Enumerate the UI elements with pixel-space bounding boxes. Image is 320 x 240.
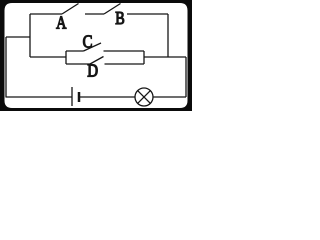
switch C lever <box>84 43 102 51</box>
node ladder right bar <box>143 51 145 64</box>
svg-text:D: D <box>87 60 98 80</box>
lamp L1 circle <box>135 88 153 106</box>
wire D left <box>66 63 90 65</box>
wire feed right <box>144 56 186 58</box>
wire feed left <box>30 56 66 58</box>
svg-text:A: A <box>56 12 67 32</box>
node ladder left bar <box>65 51 67 64</box>
wire left branch <box>6 36 30 38</box>
wire C right <box>104 50 145 52</box>
wire top left <box>30 13 62 15</box>
switch D lever <box>90 57 104 65</box>
switch A lever <box>62 4 79 15</box>
wire right rail upper <box>167 14 169 57</box>
wire top middle <box>85 13 104 15</box>
border frame <box>0 0 192 111</box>
wire bottom middle <box>80 96 135 98</box>
svg-text:C: C <box>83 32 93 52</box>
wire right rail lower <box>185 57 187 97</box>
wire bottom left <box>6 96 72 98</box>
wire left rail <box>5 37 7 98</box>
wire D right <box>105 63 145 65</box>
wire C left <box>66 50 84 52</box>
wire left rail upper <box>29 14 31 57</box>
battery short plate <box>78 92 81 102</box>
battery long plate <box>71 87 73 106</box>
wire bottom right <box>153 96 186 98</box>
lamp L1 cross <box>138 91 151 104</box>
svg-text:B: B <box>115 8 125 28</box>
switch B lever <box>104 4 121 15</box>
wire top right <box>127 13 168 15</box>
